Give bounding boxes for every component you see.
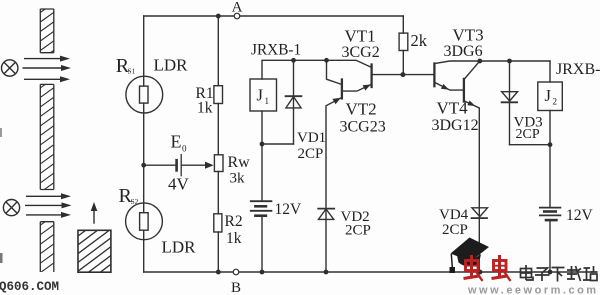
svg-text:R2: R2 [225, 213, 243, 230]
svg-text:3k: 3k [230, 170, 246, 186]
svg-text:S1: S1 [128, 67, 136, 76]
svg-text:12V: 12V [566, 207, 594, 224]
svg-text:VD1: VD1 [297, 130, 326, 146]
svg-text:2CP: 2CP [345, 223, 371, 239]
svg-text:E: E [171, 131, 182, 151]
svg-text:3DG12: 3DG12 [432, 117, 479, 134]
svg-text:1k: 1k [197, 99, 213, 116]
svg-text:4V: 4V [168, 175, 190, 194]
svg-text:2CP: 2CP [298, 146, 324, 162]
svg-text:1k: 1k [226, 230, 242, 247]
svg-text:VT2: VT2 [346, 100, 377, 119]
svg-text:3DG6: 3DG6 [444, 43, 483, 60]
svg-text:S2: S2 [131, 197, 139, 206]
svg-text:VT3: VT3 [453, 26, 484, 45]
svg-text:VT4: VT4 [437, 99, 469, 118]
svg-text:Q606.COM: Q606.COM [0, 280, 59, 294]
svg-text:3CG23: 3CG23 [340, 119, 386, 136]
svg-text:LDR: LDR [162, 238, 197, 257]
svg-text:1: 1 [265, 96, 270, 106]
svg-text:J: J [545, 86, 552, 105]
svg-text:J: J [257, 86, 264, 105]
svg-text:www.eeworm.com: www.eeworm.com [467, 285, 599, 295]
svg-text:2CP: 2CP [442, 222, 468, 238]
svg-text:LDR: LDR [154, 56, 189, 75]
svg-text:B: B [231, 280, 241, 295]
svg-text:0: 0 [182, 143, 187, 153]
svg-text:2CP: 2CP [516, 127, 540, 142]
svg-text:Rw: Rw [228, 154, 251, 171]
svg-text:3CG2: 3CG2 [342, 44, 380, 61]
svg-text:JRXB-1: JRXB-1 [556, 61, 600, 78]
svg-text:JRXB-1: JRXB-1 [251, 42, 301, 59]
svg-text:2k: 2k [411, 31, 428, 50]
svg-text:12V: 12V [275, 201, 303, 218]
svg-text:2: 2 [553, 96, 558, 106]
svg-text:VD4: VD4 [439, 207, 469, 223]
svg-text:A: A [232, 0, 243, 16]
